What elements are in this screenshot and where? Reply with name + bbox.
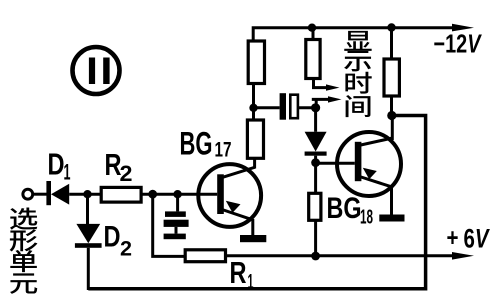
node (junction dot, divider tap) [249,104,257,112]
resistor (upper, collector load of BG17) [248,41,264,84]
arrowhead output 2 [328,96,342,102]
node (base node, to capacitor) [173,190,181,198]
arrowhead output 1 [326,84,340,90]
wire [390,29,393,59]
resistor R1 [185,250,225,262]
wire [254,106,280,109]
wire [314,108,317,132]
ground (capacitor) [164,234,186,240]
wire BG18 collector lead [391,116,394,141]
wire to output arrow 1 [314,79,330,88]
node (collector node BG18) [387,111,396,120]
vertical label "显示时间" (display time outputs) [344,31,372,117]
diode D2 [75,224,102,248]
node (junction of D1, R2, D2) [83,190,91,198]
wire [314,156,317,194]
terminal (input, open circle) [23,189,33,199]
svg-text:+: + [447,224,459,252]
svg-text:−12V: −12V [434,29,483,59]
wire BG17 emitter lead [251,219,254,235]
wire -12V top rail [253,28,459,42]
node (junction capacitor / diode / arrow) [311,103,320,112]
svg-text:2: 2 [120,238,132,261]
wire D2 to bottom rail [87,248,90,290]
svg-text:D: D [48,147,65,182]
wire BG18 emitter lead [390,186,393,215]
ground (BG18 emitter) [379,215,404,222]
svg-text:17: 17 [215,139,232,162]
wire [390,96,393,116]
arrowhead -12V rail [452,24,474,32]
svg-text:BG: BG [180,126,213,162]
diode D1 [46,181,69,205]
resistor (BG18 base bias) [309,193,321,220]
wire to output arrow 2 [312,99,331,105]
node (base node, to R1) [148,190,157,199]
node (junction diode / BG18 base / resistor) [311,158,320,167]
node (top rail dot, middle column) [308,24,316,32]
wire (R2 to BG17 base) [141,193,217,196]
wire [312,29,315,40]
vertical label "选形单元" (input shaping unit) [10,207,38,293]
capacitor (base, to ground) [164,211,189,227]
svg-text:BG: BG [327,192,362,225]
diode (middle, clamping) [305,132,327,156]
svg-text:1: 1 [64,160,71,185]
wire [252,108,255,120]
wire [314,220,317,256]
wire +6V rail [226,254,460,257]
wire [298,106,316,109]
wire BG18 base [316,162,355,165]
wire collector node to right / down to bottom rail [88,116,425,289]
resistor (lower, between tap and BG17 collector) [247,120,263,158]
node (junction +6V rail / middle resistor) [311,252,320,261]
wire [252,84,255,109]
capacitor (coupling, polarized) [280,93,298,120]
svg-text:18: 18 [360,207,373,229]
svg-text:2: 2 [120,161,133,186]
transistor BG17 (PNP) [198,164,261,227]
node (top rail dot, right column) [387,23,395,31]
arrowhead +6V rail [452,252,474,260]
wire [175,227,178,234]
svg-text:R: R [230,255,247,290]
wire [33,193,47,196]
ground (BG17 emitter) [240,235,266,242]
wire capacitor lead [176,194,179,211]
svg-text:D: D [104,221,121,254]
svg-text:6V: 6V [464,224,491,254]
wire [69,193,101,196]
resistor (BG18 collector load) [384,59,399,96]
transistor BG18 (PNP) [337,132,401,196]
resistor R2 [101,187,141,202]
wire D2 anode [86,194,89,224]
wire base node down to R1 [153,194,186,256]
resistor (middle column top) [306,40,320,79]
wire BG17 collector lead [253,158,256,168]
figure number circled 11 [73,47,120,94]
